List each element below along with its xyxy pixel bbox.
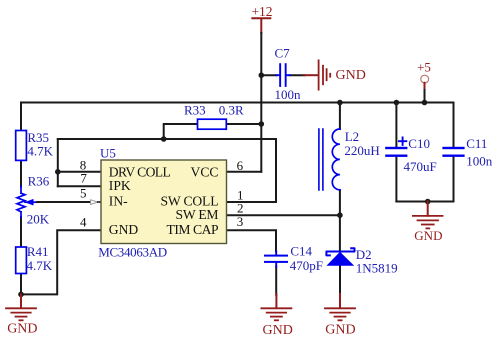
wire SW COLL riser (227, 139, 276, 202)
potentiometer R36 (17, 174, 50, 227)
svg-text:100n: 100n (466, 154, 493, 169)
resistor R41 (16, 244, 53, 274)
wire pin7 (58, 185, 101, 187)
svg-text:C7: C7 (275, 46, 291, 61)
capacitor C10 (385, 103, 437, 202)
diode D2 1N5819 (326, 215, 397, 294)
svg-text:U5: U5 (100, 146, 116, 161)
wire pin4 GND route (21, 230, 101, 294)
svg-text:+5: +5 (417, 59, 431, 74)
svg-text:VCC: VCC (191, 164, 219, 179)
wire top +5 bus (21, 102, 454, 104)
svg-text:IPK: IPK (109, 178, 131, 193)
capacitor C11 (442, 103, 492, 202)
wire +12 vertical rail (260, 33, 262, 172)
wire pin5 IN- (37, 201, 91, 203)
svg-text:GND: GND (336, 68, 366, 83)
svg-text:R36: R36 (28, 174, 50, 189)
junction L2 top on bus (337, 100, 343, 106)
svg-text:C10: C10 (408, 136, 430, 151)
svg-text:100n: 100n (275, 87, 302, 102)
resistor R35 (16, 130, 54, 161)
svg-text:4: 4 (80, 215, 87, 230)
IC U5 MC34063AD (98, 146, 226, 260)
svg-text:4.7K: 4.7K (27, 143, 53, 158)
wire pin2 SW EM (227, 214, 340, 216)
svg-text:C14: C14 (290, 243, 312, 258)
wire feedback/base net y139 (58, 138, 276, 140)
svg-text:6: 6 (237, 158, 244, 173)
junction C7 tap (259, 72, 265, 78)
power terminal +5 (417, 59, 431, 102)
svg-text:3: 3 (237, 214, 244, 229)
svg-text:C11: C11 (466, 136, 487, 151)
wire pins 7/8 vertical (57, 139, 59, 186)
junction L2/D2/pin2 (337, 212, 343, 218)
pin5 input triangle (91, 200, 98, 205)
wire output bottom rail (396, 201, 453, 203)
svg-text:20K: 20K (27, 211, 50, 226)
svg-text:GND: GND (263, 323, 293, 338)
svg-text:220uH: 220uH (344, 143, 379, 158)
resistor R33 (164, 102, 262, 139)
svg-text:SW EM: SW EM (176, 207, 219, 222)
svg-text:1N5819: 1N5819 (356, 261, 398, 276)
wire left divider chain (20, 103, 22, 295)
svg-text:L2: L2 (345, 129, 359, 144)
capacitor C14 (264, 243, 323, 295)
ground output (413, 202, 443, 244)
svg-text:R41: R41 (27, 244, 49, 259)
svg-text:GND: GND (414, 228, 442, 243)
svg-text:5: 5 (80, 186, 87, 201)
svg-text:TIM CAP: TIM CAP (167, 222, 219, 237)
svg-text:GND: GND (325, 323, 355, 338)
svg-text:MC34063AD: MC34063AD (98, 244, 167, 259)
svg-text:470uF: 470uF (404, 159, 437, 174)
svg-text:4.7K: 4.7K (27, 258, 53, 273)
junction R33 left (161, 136, 167, 142)
junction R33 right on +12 rail (259, 121, 265, 127)
junction bottom rail gnd (425, 199, 431, 205)
junction left ground node (18, 292, 24, 298)
svg-text:R33: R33 (184, 102, 206, 117)
ground sideways (C7) (304, 60, 366, 89)
wire pin3 TIM CAP to C14 (227, 230, 276, 251)
svg-text:GND: GND (7, 322, 37, 337)
ground D2 (325, 294, 356, 338)
junction +5 on bus (422, 100, 428, 106)
svg-text:+12: +12 (251, 4, 272, 19)
inductor L2 (319, 103, 380, 216)
junction C10 top (394, 100, 400, 106)
capacitor C7 (261, 46, 304, 102)
power terminal +12 (251, 4, 272, 33)
svg-text:0.3R: 0.3R (219, 102, 244, 117)
junction pin8 (55, 169, 61, 175)
ground C14 (261, 294, 292, 338)
ground left (6, 294, 38, 336)
wire pin8 (58, 171, 101, 173)
wire pin6 VCC (227, 171, 262, 173)
svg-text:470pF: 470pF (290, 258, 323, 273)
svg-text:GND: GND (109, 222, 139, 237)
svg-text:7: 7 (80, 171, 87, 186)
svg-text:IN-: IN- (109, 194, 128, 209)
